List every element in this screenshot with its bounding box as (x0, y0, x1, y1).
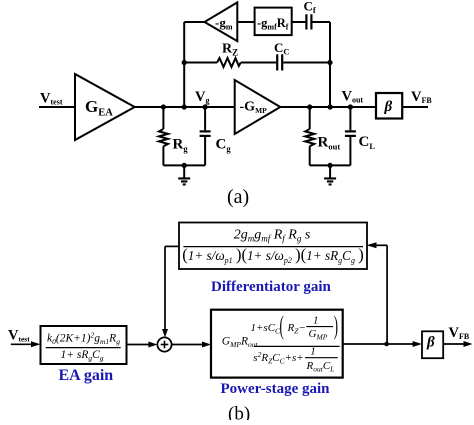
svg-text:Power-stage gain: Power-stage gain (221, 381, 331, 397)
svg-text:s2RZCC+s+: s2RZCC+s+ (253, 350, 303, 366)
svg-text:1+ sRgCg: 1+ sRgCg (60, 349, 103, 363)
svg-text:β: β (384, 99, 393, 115)
svg-text:(1+ s/ωp1 )(1+ s/ωp2 )(1+ sRgC: (1+ s/ωp1 )(1+ s/ωp2 )(1+ sRgCg ) (182, 245, 364, 265)
svg-text:): ) (334, 312, 338, 340)
svg-text:(: ( (280, 312, 284, 340)
svg-text:Differentiator gain: Differentiator gain (211, 279, 331, 295)
svg-text:k0(2K+1)2gm1Rg: k0(2K+1)2gm1Rg (47, 331, 120, 347)
svg-text:(b): (b) (228, 404, 250, 421)
svg-text:(a): (a) (227, 186, 249, 208)
svg-text:1: 1 (310, 346, 316, 358)
svg-text:1: 1 (313, 314, 319, 326)
svg-text:EA gain: EA gain (59, 367, 114, 384)
svg-text:β: β (426, 335, 435, 351)
